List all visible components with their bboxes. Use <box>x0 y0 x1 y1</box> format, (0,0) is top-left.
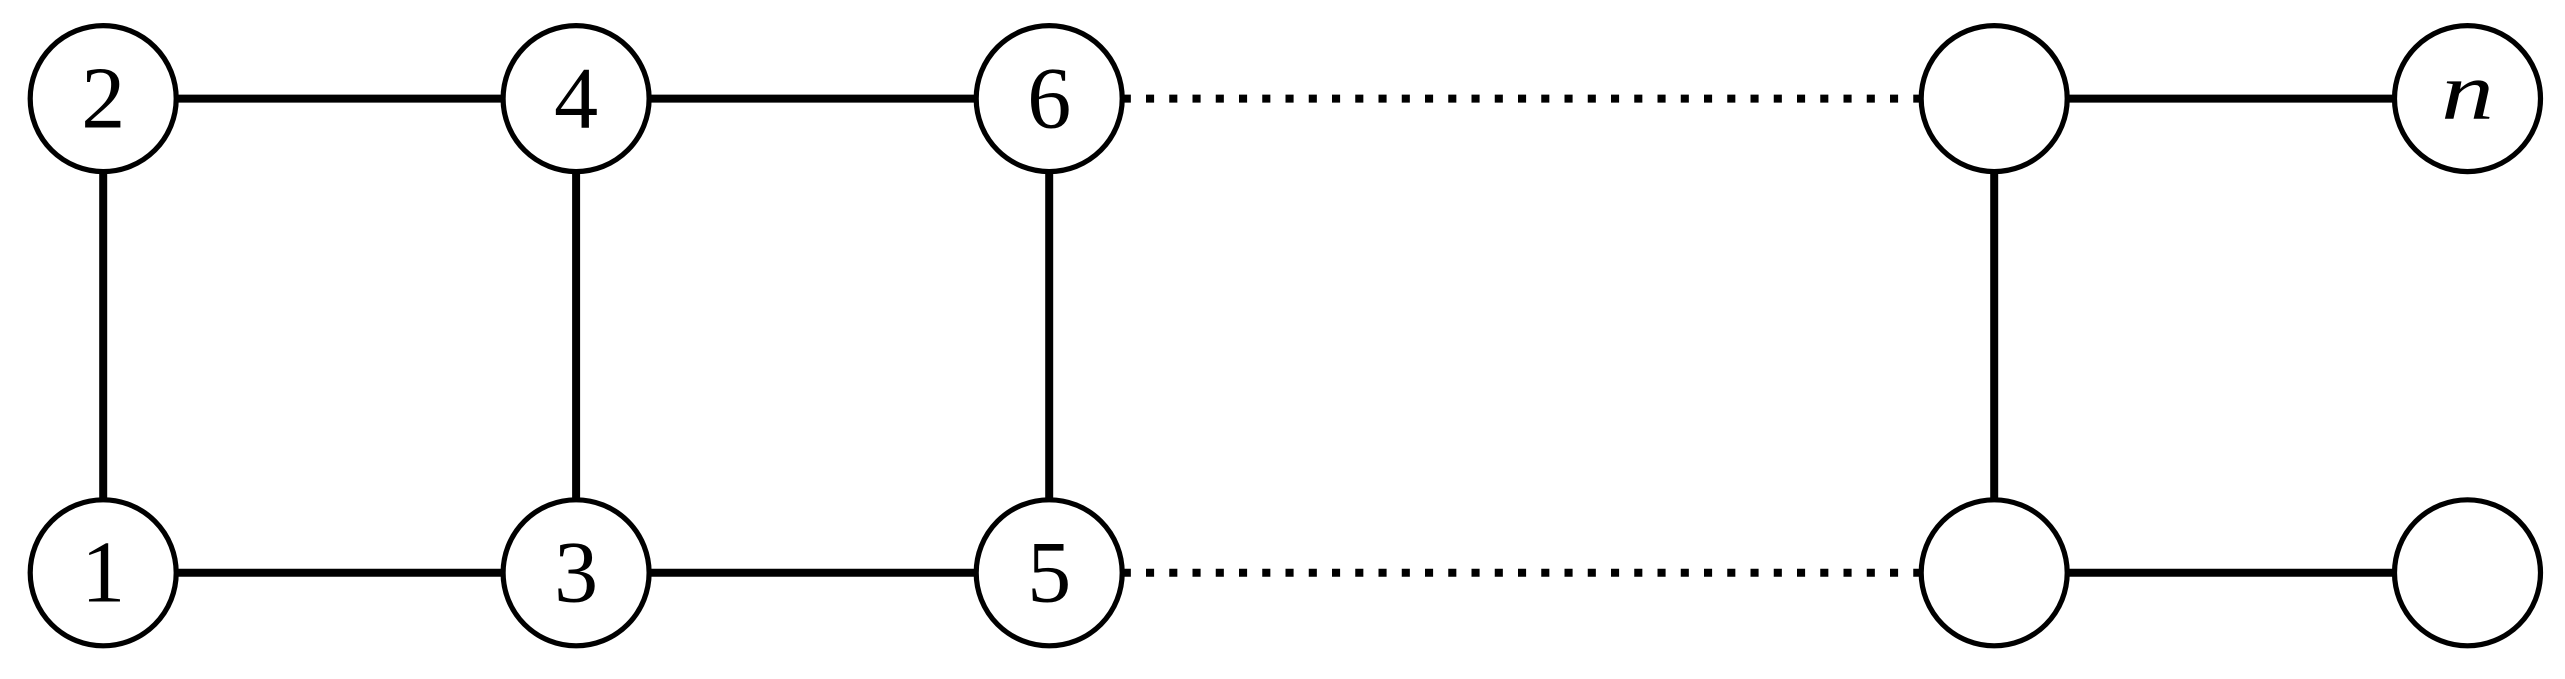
wire edge 3-5 <box>576 569 1049 577</box>
wire edge 1-2 <box>99 99 107 573</box>
wire edge a-n <box>1994 95 2467 103</box>
node b (unlabeled bottom) <box>1921 500 2067 646</box>
svg-text:3: 3 <box>554 524 598 621</box>
wire edge 3-4 <box>572 99 580 573</box>
node 3 <box>503 500 649 646</box>
node n <box>2395 26 2541 172</box>
node m (unlabeled bottom right) <box>2395 500 2541 646</box>
wire dotted edge 6-a (top) <box>1049 95 1994 103</box>
svg-text:6: 6 <box>1027 51 1071 148</box>
node 2 <box>30 26 176 172</box>
node a (unlabeled top) <box>1921 26 2067 172</box>
node 5 <box>976 500 1122 646</box>
svg-text:2: 2 <box>81 51 125 148</box>
wire edge 5-6 <box>1045 99 1053 573</box>
wire edge a-b <box>1990 99 1998 573</box>
wire edge b-m <box>1994 569 2467 577</box>
node 4 <box>503 26 649 172</box>
svg-text:1: 1 <box>81 524 125 621</box>
node 1 <box>30 500 176 646</box>
svg-text:5: 5 <box>1027 524 1071 621</box>
wire edge 4-6 <box>576 95 1049 103</box>
node 6 <box>976 26 1122 172</box>
svg-text:n: n <box>2441 47 2494 137</box>
wire edge 1-3 <box>103 569 576 577</box>
wire edge 2-4 <box>103 95 576 103</box>
svg-text:4: 4 <box>554 51 598 148</box>
wire dotted edge 5-b (bottom) <box>1049 569 1994 577</box>
